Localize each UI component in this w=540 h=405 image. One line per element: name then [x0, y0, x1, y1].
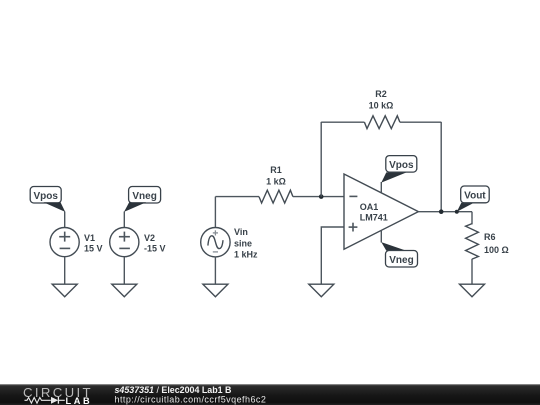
svg-text:10 kΩ: 10 kΩ — [369, 100, 394, 110]
ground under op-amp plus input — [309, 284, 334, 297]
junction node at output — [439, 209, 444, 214]
wire V1 top — [64, 212, 66, 228]
voltage source Vin (sine) — [201, 228, 230, 257]
node Vneg label on op-amp — [386, 251, 418, 268]
resistor R6 — [466, 224, 479, 259]
wire Vin to R1 — [215, 196, 259, 198]
wire R1 to op-amp inverting input — [293, 196, 345, 198]
node Vout label — [461, 186, 490, 203]
svg-text:1 kΩ: 1 kΩ — [266, 176, 286, 186]
flag pointer from Vneg label to V2 wire — [124, 202, 146, 212]
junction node at inverting input — [319, 194, 324, 199]
value label V2 -15 V — [144, 233, 166, 254]
svg-text:Vpos: Vpos — [389, 160, 414, 171]
op-amp OA1 triangle — [344, 174, 418, 249]
wire V2 bottom — [123, 257, 125, 284]
value label V1 15 V — [84, 233, 103, 254]
wire V2 top — [123, 212, 125, 228]
svg-text:s4537351 / Elec2004 Lab1 B: s4537351 / Elec2004 Lab1 B — [115, 385, 232, 395]
svg-text:OA1: OA1 — [360, 202, 379, 212]
flag pointer from Vpos label to V1 wire — [44, 202, 66, 212]
svg-text:Vout: Vout — [464, 191, 486, 202]
wire Vpos power pin — [380, 182, 382, 193]
wire op-amp output — [418, 211, 472, 213]
wire Vin bottom — [214, 257, 216, 284]
svg-text:LM741: LM741 — [360, 212, 388, 222]
value label R1 1 kOhm — [266, 165, 286, 187]
CircuitLab logo CIRCUIT — [23, 385, 93, 400]
svg-text:Vneg: Vneg — [389, 255, 413, 266]
ground under R6 — [460, 284, 485, 297]
wire plus input to ground — [321, 227, 344, 284]
voltage source V2 — [110, 228, 139, 257]
node Vneg label on V2 — [129, 187, 161, 204]
svg-text:V2: V2 — [144, 233, 155, 243]
wire junction up to R2 — [320, 122, 322, 197]
node Vpos label on V1 — [30, 187, 61, 204]
node Vpos label on op-amp — [386, 156, 417, 173]
wire R6 to ground — [471, 259, 473, 284]
svg-text:Vin: Vin — [234, 227, 248, 237]
wire R2 down to output — [440, 122, 442, 212]
wire Vneg power pin — [380, 230, 382, 242]
wire Vin top — [214, 197, 216, 228]
flag pointer from Vout label to output wire — [457, 203, 474, 212]
ground under V1 — [52, 284, 77, 297]
svg-text:-15 V: -15 V — [144, 243, 166, 253]
svg-text:Vneg: Vneg — [132, 191, 156, 202]
CircuitLab logo LAB — [66, 396, 93, 405]
svg-text:R6: R6 — [484, 232, 496, 242]
wire output down to R6 — [471, 212, 473, 225]
value label R2 10 kOhm — [369, 89, 394, 111]
svg-text:R1: R1 — [270, 165, 282, 175]
svg-text:Vpos: Vpos — [33, 191, 58, 202]
wire R2 left — [321, 121, 364, 123]
wire V1 bottom — [64, 257, 66, 284]
svg-text:100 Ω: 100 Ω — [484, 245, 509, 255]
svg-text:LAB: LAB — [66, 396, 93, 405]
svg-text:15 V: 15 V — [84, 243, 103, 253]
footer title text — [115, 385, 232, 395]
flag pointer from Vpos label to power pin — [381, 172, 406, 182]
voltage source V1 — [50, 228, 79, 257]
flag pointer from Vneg label to power pin — [381, 242, 406, 251]
wire R2 right — [400, 121, 441, 123]
CircuitLab logo resistor zigzag — [25, 398, 51, 404]
value label OA1 LM741 — [360, 202, 388, 223]
ground under V2 — [112, 284, 137, 297]
value label Vin sine 1 kHz — [234, 227, 258, 259]
footer url text — [115, 395, 267, 405]
resistor R1 — [259, 190, 293, 203]
svg-text:1 kHz: 1 kHz — [234, 249, 258, 259]
svg-text:http://circuitlab.com/ccrf5vqe: http://circuitlab.com/ccrf5vqefh6c2 — [115, 395, 267, 405]
ground under Vin — [203, 284, 228, 297]
svg-text:R2: R2 — [375, 89, 387, 99]
node Vout flag tip dot — [455, 210, 459, 214]
footer bar — [0, 384, 540, 405]
value label R6 100 Ohm — [484, 232, 509, 255]
resistor R2 — [364, 116, 400, 129]
svg-text:sine: sine — [234, 238, 252, 248]
CircuitLab logo diode — [51, 397, 65, 404]
svg-text:V1: V1 — [84, 233, 95, 243]
